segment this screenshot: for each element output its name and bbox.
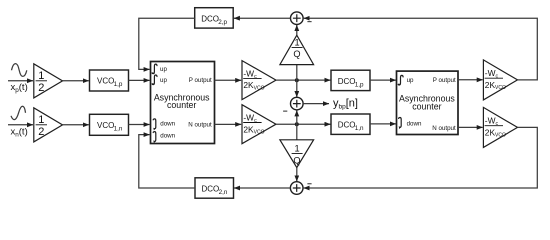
svg-text:1,n: 1,n: [355, 125, 364, 132]
minus sign at S3 right input: [307, 183, 311, 185]
input wire x_p(t): [8, 80, 33, 82]
gain amp -Wc/2Kvco G3 (N): [242, 105, 276, 144]
gain amp -Wc/2Kvco G4 (P right): [483, 60, 517, 100]
svg-text:1: 1: [294, 144, 299, 154]
pin integral-up (U2): [398, 75, 414, 85]
svg-text:1: 1: [38, 114, 44, 126]
block DCO_2,n: [195, 178, 234, 198]
pin integral-down (U2): [399, 118, 422, 130]
block VCO_1,n: [90, 114, 129, 135]
svg-text:Q: Q: [293, 49, 300, 59]
pin integral-up 1 (U1): [152, 64, 167, 74]
title text U1: [154, 92, 210, 110]
svg-text:DCO: DCO: [338, 77, 356, 86]
wire G5 feedback to summer S3 (bottom loop): [304, 127, 538, 188]
minus sign at S2 lower input: [283, 110, 287, 112]
svg-text:2: 2: [38, 82, 44, 94]
value label -Wc/2Kvco (G4): [485, 68, 506, 91]
svg-text:counter: counter: [167, 100, 196, 110]
pin integral-up 2 (U1): [152, 75, 167, 85]
svg-text:up: up: [407, 77, 414, 84]
svg-text:1,p: 1,p: [355, 81, 364, 88]
summer S1 (top): [291, 12, 304, 25]
svg-text:DCO: DCO: [201, 14, 219, 23]
wire U1 P output to gain G2: [215, 79, 242, 81]
wire 1/Q top to summer S1: [296, 25, 298, 35]
svg-text:N output: N output: [188, 121, 212, 128]
wire DCO1p to counter U2 up pin: [370, 79, 396, 81]
pin integral-down 2 (U1): [153, 132, 175, 144]
wire DCO2p to U1 up pin 1 (feedback): [139, 18, 195, 69]
svg-text:down: down: [160, 132, 175, 139]
wire U2 N output to gain G5: [458, 126, 483, 128]
gain amp 1/2 (n): [34, 108, 63, 142]
value label 1/2 (n): [36, 114, 47, 138]
wire G2 to DCO1p with node: [276, 79, 331, 81]
wire VCO1p to counter up pin: [129, 79, 150, 81]
svg-text:ybp[n]: ybp[n]: [333, 98, 358, 111]
wire S3 to DCO2n: [234, 187, 290, 189]
svg-text:VCO: VCO: [97, 121, 114, 130]
svg-text:2: 2: [38, 126, 44, 138]
value label 1/2 (p): [36, 70, 47, 94]
pin integral-down 1 (U1): [153, 119, 175, 131]
wire amp n to VCO1n: [63, 124, 89, 126]
svg-text:up: up: [160, 77, 167, 84]
block DCO_1,n: [331, 114, 370, 134]
wire amp p to VCO1p: [63, 80, 89, 82]
svg-text:P output: P output: [433, 77, 456, 84]
svg-text:N output: N output: [432, 125, 456, 132]
block DCO_2,p: [195, 8, 234, 28]
svg-text:1,n: 1,n: [114, 126, 123, 133]
value label 1/Q (top): [292, 38, 303, 59]
gain amp 1/Q top (up): [280, 35, 314, 64]
wire VCO1n to counter down pin: [129, 124, 150, 126]
node P junction: [295, 78, 299, 82]
waveform glyph input n: [11, 106, 26, 119]
block VCO_1,p: [90, 70, 129, 91]
value label -Wc/2Kvco (G3): [243, 113, 264, 136]
block DCO_1,p: [331, 70, 370, 90]
summer S3 (bottom): [290, 182, 303, 195]
waveform glyph input p: [12, 64, 27, 77]
input wire x_n(t): [8, 124, 33, 126]
summer S2 (middle): [291, 97, 304, 110]
svg-text:1: 1: [38, 70, 44, 82]
svg-text:up: up: [160, 66, 167, 73]
block asynchronous counter U2 (right): [397, 71, 459, 134]
wire P node up to 1/Q base and down to summer S2: [296, 65, 298, 97]
wire 1/Q bottom to summer S3: [296, 168, 298, 182]
gain amp 1/Q bottom (down): [280, 140, 314, 168]
wire U2 P output to gain G4: [458, 79, 483, 81]
wire G3 to DCO1n with node: [276, 123, 331, 125]
wire G4 feedback to summer S1 (top loop): [304, 18, 538, 80]
gain amp -Wc/2Kvco G5 (N right): [483, 107, 517, 147]
svg-text:1,p: 1,p: [114, 81, 123, 88]
wire DCO2n to U1 down pin 2 (feedback): [139, 135, 195, 188]
wire S1 to DCO2p: [234, 17, 291, 19]
svg-text:2,p: 2,p: [218, 19, 227, 26]
gain amp -Wc/2Kvco G2 (P): [242, 61, 276, 100]
svg-text:down: down: [407, 120, 422, 127]
svg-text:1: 1: [294, 38, 299, 48]
svg-text:2,n: 2,n: [219, 189, 228, 196]
block asynchronous counter U1 (left): [151, 62, 215, 144]
value label -Wc/2Kvco (G5): [485, 116, 506, 139]
value label -Wc/2Kvco (G2): [243, 68, 264, 91]
node N junction: [295, 122, 299, 126]
svg-text:xp(t): xp(t): [11, 82, 28, 94]
minus sign at S1 right input: [307, 21, 311, 23]
svg-text:xn(t): xn(t): [11, 126, 28, 138]
svg-text:VCO: VCO: [97, 77, 114, 86]
value label 1/Q (bottom): [292, 144, 303, 166]
wire N node up to summer S2 and down to 1/Q base: [296, 110, 298, 139]
svg-text:DCO: DCO: [202, 184, 220, 193]
svg-text:Q: Q: [293, 155, 300, 165]
wire DCO1n to counter U2 down pin: [370, 123, 396, 125]
gain amp 1/2 (p): [34, 64, 63, 98]
wire U1 N output to gain G3: [215, 123, 242, 125]
title text U2: [399, 93, 455, 111]
svg-text:P output: P output: [189, 77, 212, 84]
svg-text:down: down: [160, 120, 175, 127]
svg-text:DCO: DCO: [338, 121, 356, 130]
wire S2 to output label: [303, 103, 329, 105]
svg-text:counter: counter: [412, 102, 441, 112]
